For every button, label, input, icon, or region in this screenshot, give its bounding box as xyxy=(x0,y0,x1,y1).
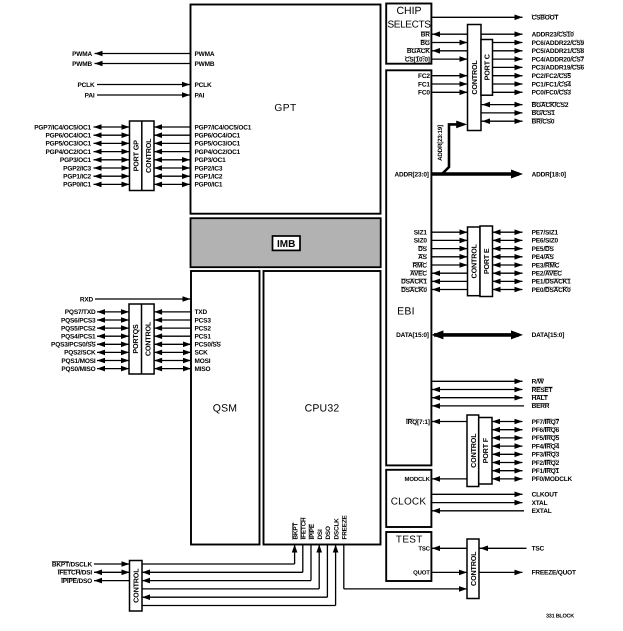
wire RXD xyxy=(80,296,191,303)
svg-text:AS: AS xyxy=(418,254,428,261)
svg-text:EBI: EBI xyxy=(397,305,415,317)
svg-text:RMC: RMC xyxy=(413,262,428,269)
caption 331 BLOCK xyxy=(546,614,574,620)
svg-text:PQS4/PCS1: PQS4/PCS1 xyxy=(61,334,96,341)
wire FC1 (EBI - control) xyxy=(418,81,467,88)
svg-text:PF6/IRQ6: PF6/IRQ6 xyxy=(532,427,560,434)
port F box xyxy=(479,418,492,485)
svg-text:IMB: IMB xyxy=(277,239,295,250)
svg-text:BR: BR xyxy=(421,32,431,39)
svg-text:BGACK: BGACK xyxy=(407,48,430,55)
svg-text:PE4/AS: PE4/AS xyxy=(532,254,555,261)
svg-text:PC5/ADDR21/CS8: PC5/ADDR21/CS8 xyxy=(532,48,585,55)
svg-text:PQS6/PCS3: PQS6/PCS3 xyxy=(61,317,96,324)
wire BGACK (chip selects - control) xyxy=(407,48,468,55)
pin IPIPE (CPU32) xyxy=(142,523,316,583)
svg-text:BKPT/DSCLK: BKPT/DSCLK xyxy=(52,561,93,568)
wire RESET xyxy=(432,387,553,394)
svg-text:PQS5/PCS2: PQS5/PCS2 xyxy=(61,325,96,332)
svg-text:PF2/IRQ2: PF2/IRQ2 xyxy=(532,460,560,467)
svg-text:IFETCH: IFETCH xyxy=(301,517,308,540)
svg-text:PF7/IRQ7: PF7/IRQ7 xyxy=(532,419,560,426)
svg-text:CLOCK: CLOCK xyxy=(391,497,427,508)
wire PQS1/MOSI xyxy=(61,358,210,365)
svg-text:PF1/IRQ1: PF1/IRQ1 xyxy=(532,468,560,475)
svg-text:RESET: RESET xyxy=(532,387,553,394)
svg-text:PGP2/IC3: PGP2/IC3 xyxy=(63,165,91,172)
svg-text:PGP1/IC2: PGP1/IC2 xyxy=(195,174,223,181)
svg-text:PWMA: PWMA xyxy=(195,51,215,58)
svg-text:BR/CS0: BR/CS0 xyxy=(532,119,555,126)
wire PQS5/PCS2 xyxy=(61,325,211,332)
wire PC6/ADDR22/CS9 xyxy=(493,40,585,47)
svg-text:GPT: GPT xyxy=(274,103,296,114)
svg-text:SCK: SCK xyxy=(195,350,209,357)
wire BKPT/DSCLK xyxy=(52,561,130,568)
svg-text:PAI: PAI xyxy=(195,92,205,99)
svg-text:CONTROL: CONTROL xyxy=(143,321,152,356)
wire FREEZE/QUOT xyxy=(479,570,576,577)
svg-text:CONTROL: CONTROL xyxy=(469,433,478,468)
svg-text:PORT GP: PORT GP xyxy=(131,140,140,171)
svg-text:PF4/IRQ4: PF4/IRQ4 xyxy=(532,443,560,450)
wire PGP7/IC4/OC5/OC1 xyxy=(34,124,252,131)
svg-text:CPU32: CPU32 xyxy=(305,402,340,414)
wire BG (chip selects - control) xyxy=(420,40,467,47)
port C control box xyxy=(468,25,482,131)
svg-text:ADDR[18:0]: ADDR[18:0] xyxy=(532,171,566,178)
svg-text:PC1/FC1/CS4: PC1/FC1/CS4 xyxy=(532,81,572,88)
svg-text:PORT F: PORT F xyxy=(481,437,490,463)
wire PF6/IRQ6 xyxy=(492,427,560,434)
wire IRQ[7:1] (EBI - control) xyxy=(406,419,467,426)
svg-text:PGP3/OC1: PGP3/OC1 xyxy=(60,157,92,164)
svg-text:PGP3/OC1: PGP3/OC1 xyxy=(195,157,227,164)
wire IPIPE/DSO xyxy=(61,578,129,585)
wire PAI xyxy=(85,92,205,99)
wire TSC external xyxy=(479,546,545,553)
wire PQS3/PCS0/SS xyxy=(51,342,221,349)
svg-text:PGP5/OC3/OC1: PGP5/OC3/OC1 xyxy=(195,141,241,148)
svg-text:MODCLK: MODCLK xyxy=(405,476,431,483)
module CPU32 box xyxy=(264,271,381,545)
svg-text:PAI: PAI xyxy=(85,92,95,99)
wire PE1/DSACK1 xyxy=(401,279,571,286)
svg-text:PORT C: PORT C xyxy=(483,54,492,80)
wire PE7/SIZ1 xyxy=(414,229,559,236)
wire PE2/AVEC xyxy=(410,270,562,277)
bus DATA[15:0] xyxy=(396,330,564,339)
wire TSC (test - control) xyxy=(418,545,467,552)
wire CS[10:0] (chip selects - control) xyxy=(405,56,468,63)
svg-text:PC0/FC0/CS3: PC0/FC0/CS3 xyxy=(532,90,572,97)
wire PGP3/OC1 xyxy=(60,157,226,164)
wire PQS7/TXD xyxy=(65,309,208,316)
svg-text:PGP7/IC4/OC5/OC1: PGP7/IC4/OC5/OC1 xyxy=(34,124,91,131)
svg-text:PCLK: PCLK xyxy=(78,82,95,89)
wire PC2/FC2/CS5 xyxy=(493,73,572,80)
svg-text:PQS3/PCS0/SS: PQS3/PCS0/SS xyxy=(51,342,96,349)
wire PGP0/IC1 xyxy=(63,182,223,189)
bus ADDR[23:19] branch xyxy=(437,121,467,174)
svg-text:PWMB: PWMB xyxy=(72,61,92,68)
svg-text:PF5/IRQ5: PF5/IRQ5 xyxy=(532,435,560,442)
svg-text:DSI: DSI xyxy=(317,529,324,540)
IMB label box xyxy=(273,236,301,250)
svg-text:PGP6/OC4/OC1: PGP6/OC4/OC1 xyxy=(195,133,241,140)
IMB gray bus band xyxy=(191,218,381,267)
svg-text:MOSI: MOSI xyxy=(195,358,211,365)
test control box xyxy=(467,539,479,599)
svg-text:TSC: TSC xyxy=(418,545,430,552)
svg-text:DATA[15:0]: DATA[15:0] xyxy=(532,332,565,339)
svg-text:PGP1/IC2: PGP1/IC2 xyxy=(63,174,91,181)
wire PC0/FC0/CS3 xyxy=(493,90,572,97)
svg-text:PE2/AVEC: PE2/AVEC xyxy=(532,271,563,278)
svg-text:DSO: DSO xyxy=(325,526,332,540)
wire PQS4/PCS1 xyxy=(61,333,211,340)
svg-text:PQS7/TXD: PQS7/TXD xyxy=(65,309,96,316)
svg-text:IPIPE: IPIPE xyxy=(309,523,316,539)
pin DSI (CPU32) xyxy=(142,529,324,589)
svg-text:PGP4/OC2/OC1: PGP4/OC2/OC1 xyxy=(195,149,241,156)
svg-text:CONTROL: CONTROL xyxy=(144,138,153,173)
svg-text:FREEZE/QUOT: FREEZE/QUOT xyxy=(532,570,576,577)
wire PQS6/PCS3 xyxy=(61,317,211,324)
wire PGP1/IC2 xyxy=(63,173,223,180)
svg-text:IPIPE/DSO: IPIPE/DSO xyxy=(61,578,92,585)
wire BG/CS1 xyxy=(481,110,555,117)
svg-text:BG/CS1: BG/CS1 xyxy=(532,110,556,117)
svg-text:IRQ[7:1]: IRQ[7:1] xyxy=(406,419,430,426)
module TEST box xyxy=(386,532,431,581)
wire QUOT (test - control) xyxy=(413,570,467,577)
svg-text:PF3/IRQ3: PF3/IRQ3 xyxy=(532,452,560,459)
port GP / control box xyxy=(130,121,155,191)
wire PE3/RMC xyxy=(413,262,560,269)
svg-text:PE5/DS: PE5/DS xyxy=(532,246,555,253)
wire PC5/ADDR21/CS8 xyxy=(493,48,585,55)
wire PCLK xyxy=(78,82,212,89)
module CLOCK box xyxy=(386,470,431,527)
wire FC0 (EBI - control) xyxy=(418,90,467,97)
svg-text:PORT E: PORT E xyxy=(482,248,491,274)
svg-text:FC2: FC2 xyxy=(418,73,430,80)
svg-text:RXD: RXD xyxy=(80,296,94,303)
wire PWMA xyxy=(72,51,215,58)
port QS / control box xyxy=(129,304,154,374)
port E control box xyxy=(468,227,481,296)
wire PF0/MODCLK xyxy=(492,476,573,483)
wire PE5/DS xyxy=(418,246,554,253)
svg-text:DS: DS xyxy=(418,246,428,253)
svg-text:CS[10:0]: CS[10:0] xyxy=(405,56,430,63)
svg-text:DSCLK: DSCLK xyxy=(333,518,340,540)
svg-text:PCS2: PCS2 xyxy=(195,325,212,332)
svg-text:PE0/DSACK0: PE0/DSACK0 xyxy=(532,287,572,294)
wire PQS2/SCK xyxy=(64,350,208,357)
svg-text:FREEZE: FREEZE xyxy=(342,514,349,539)
wire PE6/SIZ0 xyxy=(414,238,559,245)
svg-text:AVEC: AVEC xyxy=(410,271,427,278)
svg-text:XTAL: XTAL xyxy=(532,500,548,507)
svg-text:DATA[15:0]: DATA[15:0] xyxy=(396,332,429,339)
wire HALT xyxy=(432,395,548,402)
svg-text:DSACK1: DSACK1 xyxy=(401,279,427,286)
wire PWMB xyxy=(72,61,215,68)
svg-text:PGP0/IC1: PGP0/IC1 xyxy=(63,182,91,189)
svg-text:EXTAL: EXTAL xyxy=(532,508,552,515)
module GPT (general purpose timer) box xyxy=(191,5,381,214)
svg-text:PWMA: PWMA xyxy=(72,51,92,58)
wire PC3/ADDR19/CS6 xyxy=(493,65,585,72)
wire XTAL xyxy=(431,500,547,507)
svg-text:PGP0/IC1: PGP0/IC1 xyxy=(195,182,223,189)
debug control box (bottom left) xyxy=(130,561,143,612)
svg-text:PE1/DSACK1: PE1/DSACK1 xyxy=(532,279,572,286)
svg-text:CLKOUT: CLKOUT xyxy=(532,492,558,499)
svg-text:BG: BG xyxy=(420,40,430,47)
svg-text:331 BLOCK: 331 BLOCK xyxy=(546,614,574,620)
svg-text:PGP6/OC4/OC1: PGP6/OC4/OC1 xyxy=(45,133,91,140)
svg-text:PCS3: PCS3 xyxy=(195,317,212,324)
wire PQS0/MISO xyxy=(61,366,210,373)
wire BERR xyxy=(432,403,550,410)
module CHIP SELECTS box xyxy=(386,4,431,64)
svg-text:PCS0/SS: PCS0/SS xyxy=(195,342,222,349)
wire PGP2/IC3 xyxy=(63,165,223,172)
module QSM box xyxy=(191,271,260,545)
svg-text:PCS1: PCS1 xyxy=(195,334,212,341)
wire CSBOOT xyxy=(431,15,558,22)
wire PC4/ADDR20/CS7 xyxy=(493,56,585,63)
wire R/W xyxy=(431,379,544,386)
wire BGACK/CS2 xyxy=(481,102,569,109)
svg-text:CONTROL: CONTROL xyxy=(469,551,478,586)
svg-text:PGP5/OC3/OC1: PGP5/OC3/OC1 xyxy=(45,141,91,148)
svg-text:ADDR23/CS10: ADDR23/CS10 xyxy=(532,32,575,39)
svg-text:PQS0/MISO: PQS0/MISO xyxy=(61,366,95,373)
svg-text:ADDR[23:0]: ADDR[23:0] xyxy=(394,171,428,178)
port E box xyxy=(480,226,493,297)
wire PGP6/OC4/OC1 xyxy=(45,132,240,139)
svg-text:FC1: FC1 xyxy=(418,81,430,88)
svg-text:PE7/SIZ1: PE7/SIZ1 xyxy=(532,230,559,237)
pin DSO (CPU32) xyxy=(142,526,332,600)
svg-text:R/W: R/W xyxy=(532,379,545,386)
svg-text:PGP2/IC3: PGP2/IC3 xyxy=(195,165,223,172)
wire ADDR23/CS10 xyxy=(481,31,574,38)
svg-text:PE3/RMC: PE3/RMC xyxy=(532,262,560,269)
svg-text:PQS2/SCK: PQS2/SCK xyxy=(64,350,96,357)
svg-text:PF0/MODCLK: PF0/MODCLK xyxy=(532,476,573,483)
wire PF4/IRQ4 xyxy=(492,443,560,450)
svg-text:PC6/ADDR22/CS9: PC6/ADDR22/CS9 xyxy=(532,40,585,47)
wire PC1/FC1/CS4 xyxy=(493,81,572,88)
svg-text:QUOT: QUOT xyxy=(413,570,430,577)
svg-text:PC3/ADDR19/CS6: PC3/ADDR19/CS6 xyxy=(532,65,585,72)
wire PGP5/OC3/OC1 xyxy=(45,141,240,148)
svg-text:TXD: TXD xyxy=(195,309,208,316)
pin BKPT (CPU32) xyxy=(142,523,299,564)
svg-text:PGP4/OC2/OC1: PGP4/OC2/OC1 xyxy=(45,149,91,156)
port F control box xyxy=(467,415,479,487)
pin IFETCH (CPU32) xyxy=(142,517,308,575)
svg-text:TEST: TEST xyxy=(396,534,423,545)
wire PF7/IRQ7 xyxy=(492,419,560,426)
pin DSCLK (CPU32) xyxy=(142,518,340,606)
wire MODCLK (clock - control) xyxy=(405,476,467,483)
wire BR/CS0 xyxy=(481,118,555,125)
svg-text:SIZ1: SIZ1 xyxy=(414,230,428,237)
svg-text:BERR: BERR xyxy=(532,403,550,410)
svg-text:PCLK: PCLK xyxy=(195,82,212,89)
wire CLKOUT xyxy=(431,492,557,499)
svg-text:SELECTS: SELECTS xyxy=(387,19,431,30)
wire EXTAL xyxy=(432,508,552,515)
wire PE0/DSACK0 xyxy=(401,287,571,294)
svg-text:TSC: TSC xyxy=(532,546,545,553)
wire PF2/IRQ2 xyxy=(492,460,560,467)
wire BR (chip selects - control) xyxy=(421,31,468,38)
wire FC2 (EBI - control) xyxy=(418,73,467,80)
wire PF5/IRQ5 xyxy=(492,435,560,442)
wire PE4/AS xyxy=(418,254,554,261)
svg-text:HALT: HALT xyxy=(532,395,548,402)
svg-text:PE6/SIZ0: PE6/SIZ0 xyxy=(532,238,559,245)
svg-text:PC2/FC2/CS5: PC2/FC2/CS5 xyxy=(532,73,572,80)
svg-text:CHIP: CHIP xyxy=(396,5,421,17)
svg-text:CONTROL: CONTROL xyxy=(470,243,479,278)
svg-text:PC4/ADDR20/CS7: PC4/ADDR20/CS7 xyxy=(532,56,585,63)
wire PF3/IRQ3 xyxy=(492,452,560,459)
svg-text:PORTQS: PORTQS xyxy=(131,324,140,354)
svg-text:CSBOOT: CSBOOT xyxy=(532,15,559,22)
svg-text:MISO: MISO xyxy=(195,366,211,373)
svg-text:DSACK0: DSACK0 xyxy=(401,287,427,294)
svg-text:CONTROL: CONTROL xyxy=(470,60,479,95)
svg-text:QSM: QSM xyxy=(213,402,238,414)
svg-text:PWMB: PWMB xyxy=(195,61,215,68)
bus ADDR[23:0] / ADDR[18:0] xyxy=(394,170,565,179)
svg-text:BGACK/CS2: BGACK/CS2 xyxy=(532,102,569,109)
pin FREEZE (CPU32) xyxy=(342,514,467,591)
port C box xyxy=(481,40,493,96)
svg-text:ADDR[23:19]: ADDR[23:19] xyxy=(437,125,444,161)
svg-text:BKPT: BKPT xyxy=(292,523,299,540)
svg-text:IFETCH/DSI: IFETCH/DSI xyxy=(58,570,93,577)
svg-text:PQS1/MOSI: PQS1/MOSI xyxy=(61,358,96,365)
module EBI (external bus interface) box xyxy=(386,70,431,465)
svg-text:PGP7/IC4/OC5/OC1: PGP7/IC4/OC5/OC1 xyxy=(195,124,252,131)
wire IFETCH/DSI xyxy=(58,570,130,577)
svg-text:FC0: FC0 xyxy=(418,90,430,97)
svg-text:CONTROL: CONTROL xyxy=(132,568,141,603)
wire PGP4/OC2/OC1 xyxy=(45,149,240,156)
svg-text:SIZ0: SIZ0 xyxy=(414,238,428,245)
wire PF1/IRQ1 xyxy=(492,468,560,475)
